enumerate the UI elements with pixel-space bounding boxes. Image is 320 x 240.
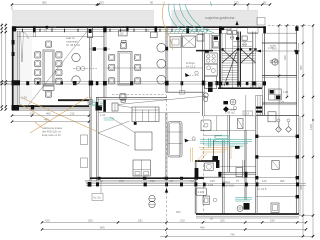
ceiling edge line xyxy=(17,36,104,38)
horizontal dim arrows at y51 xyxy=(256,50,261,53)
orange annotation text xyxy=(42,126,62,137)
wall tick xyxy=(165,47,168,51)
boiler room walls xyxy=(194,161,196,214)
niche wall xyxy=(224,34,226,51)
plumbing black xyxy=(212,156,218,160)
washer fixtures xyxy=(236,168,243,177)
svg-text:210: 210 xyxy=(180,218,185,222)
top dim ticks xyxy=(11,3,271,5)
svg-text:2.16: 2.16 xyxy=(198,190,204,194)
south wall chunks xyxy=(98,177,198,180)
black dot on top wall xyxy=(45,26,48,29)
lower cabinet xyxy=(205,76,217,89)
counter west block xyxy=(170,37,181,47)
entry partition xyxy=(32,27,34,37)
tile hatch entry strip xyxy=(21,32,31,104)
small box xyxy=(112,103,118,111)
shaft box xyxy=(256,96,263,116)
kitchen east wall xyxy=(202,33,204,116)
svg-text:natkrivena terasa: natkrivena terasa xyxy=(42,126,62,130)
landing box xyxy=(242,36,247,40)
service lines east of boiler room xyxy=(218,160,256,178)
svg-text:90: 90 xyxy=(150,1,154,5)
orange pipe bundle xyxy=(191,148,232,163)
svg-text:+3.94: +3.94 xyxy=(49,25,56,29)
svg-text:95: 95 xyxy=(263,1,267,5)
svg-text:1145: 1145 xyxy=(309,124,313,130)
svg-text:250: 250 xyxy=(88,218,93,222)
svg-text:125: 125 xyxy=(234,1,239,5)
hatch box xyxy=(88,99,92,104)
round tables east xyxy=(157,43,166,52)
white revision gap in band xyxy=(154,10,172,27)
middle room south wall xyxy=(96,97,167,99)
twin circle symbol xyxy=(76,66,80,70)
chair head north xyxy=(120,43,126,49)
svg-text:585: 585 xyxy=(299,65,303,70)
right wing outline xyxy=(262,42,297,44)
wc wall below kitchen xyxy=(196,50,213,52)
svg-text:226: 226 xyxy=(220,218,225,222)
south wall of big room xyxy=(12,105,89,107)
svg-text:305: 305 xyxy=(280,179,285,183)
pier column at grid B xyxy=(88,28,93,38)
axis tick squares along y84 xyxy=(12,80,267,85)
rotated dim texts xyxy=(283,55,313,190)
entry door arc xyxy=(21,32,28,39)
wardrobe xyxy=(168,122,182,158)
orange revision curve xyxy=(162,2,173,51)
lower wing south wall xyxy=(90,177,204,179)
svg-text:415: 415 xyxy=(45,218,50,222)
svg-text:A= 12.5: A= 12.5 xyxy=(257,187,267,191)
entrance diamond xyxy=(223,106,229,112)
window mullions xyxy=(23,29,208,33)
drain circle xyxy=(230,99,236,105)
horizontal axis lines across plan xyxy=(2,82,266,85)
kitchen counter front xyxy=(167,33,231,35)
svg-text:440: 440 xyxy=(200,225,205,229)
wall middle room / kitchen hall xyxy=(165,27,167,93)
bathroom wing east wall xyxy=(222,140,224,214)
dim ticks mid-wall y49 xyxy=(89,48,110,50)
hall dim vertical xyxy=(181,34,183,92)
bench wall in big room xyxy=(58,99,89,101)
box with X xyxy=(238,119,244,129)
wall piers on north facade xyxy=(12,26,266,33)
svg-text:745: 745 xyxy=(230,232,235,236)
hall south wall xyxy=(166,91,204,93)
bench south xyxy=(43,86,54,90)
svg-text:150: 150 xyxy=(30,112,35,116)
long dim line y183 xyxy=(86,183,306,185)
chair south xyxy=(120,94,126,100)
label box xyxy=(243,111,252,116)
svg-text:S= 48.5 m2: S= 48.5 m2 xyxy=(66,43,80,47)
svg-text:665: 665 xyxy=(100,225,105,229)
box on hall wall xyxy=(180,91,185,94)
east wall of main block xyxy=(264,27,266,116)
svg-text:1.85 m2: 1.85 m2 xyxy=(225,111,235,115)
west facade planters xyxy=(81,135,88,145)
svg-text:95: 95 xyxy=(210,217,214,221)
black cabinets xyxy=(96,102,99,108)
bottom dim chains xyxy=(42,222,313,236)
chimney block xyxy=(257,18,265,26)
middle zone walls xyxy=(228,115,230,172)
left dimension chains xyxy=(0,24,11,111)
svg-text:+0.00: +0.00 xyxy=(20,96,27,100)
chair head north xyxy=(46,41,52,47)
svg-text:1.80: 1.80 xyxy=(283,90,289,94)
small mark below sofa xyxy=(134,122,137,125)
stair up line xyxy=(224,52,237,86)
svg-text:kota poda +0.15: kota poda +0.15 xyxy=(42,133,61,137)
room C box xyxy=(268,112,276,122)
section marker circles xyxy=(149,195,155,201)
bathroom south wall xyxy=(195,160,218,162)
svg-text:5.16: 5.16 xyxy=(244,112,250,116)
room B kitchenette xyxy=(269,89,282,100)
buffet box 2 xyxy=(151,32,158,38)
svg-text:165: 165 xyxy=(210,179,215,183)
svg-text:kuhinja: kuhinja xyxy=(186,61,195,65)
svg-text:250: 250 xyxy=(119,179,124,183)
svg-text:120: 120 xyxy=(120,33,125,36)
bed xyxy=(133,160,150,176)
svg-text:302: 302 xyxy=(176,210,181,214)
buffet box north xyxy=(119,31,128,36)
south wall lower middle xyxy=(196,213,299,215)
west wall grey fill xyxy=(14,32,20,106)
dim under big room xyxy=(12,116,89,122)
box top xyxy=(197,35,204,42)
arrow to wardrobe xyxy=(185,139,189,143)
counter with X xyxy=(183,36,196,47)
hob with burners xyxy=(205,53,218,64)
neighbour building grey band xyxy=(12,11,258,27)
stair treads left flight xyxy=(222,49,238,85)
landing boxes top xyxy=(221,27,224,30)
svg-text:susjedna građevina: susjedna građevina xyxy=(205,16,235,20)
svg-text:1.20: 1.20 xyxy=(100,113,106,117)
svg-text:490: 490 xyxy=(44,118,49,122)
leader line across hall xyxy=(118,96,206,105)
stair cut X diagonals xyxy=(222,49,256,63)
teal insulation hatch in wall xyxy=(170,29,209,33)
svg-text:325: 325 xyxy=(99,1,104,5)
axis arrow mid xyxy=(165,188,168,193)
south wall grey fill xyxy=(12,107,89,109)
dim line across middle room xyxy=(106,67,203,69)
bath middle wall xyxy=(204,115,255,117)
svg-text:7.25: 7.25 xyxy=(279,100,285,104)
west wall pier xyxy=(12,40,15,45)
hall text arrow xyxy=(185,73,190,77)
svg-text:460: 460 xyxy=(46,112,51,116)
svg-text:240: 240 xyxy=(283,55,287,60)
svg-text:420: 420 xyxy=(299,185,303,190)
svg-text:181: 181 xyxy=(138,218,143,222)
teal lines lower xyxy=(235,197,252,201)
svg-text:120: 120 xyxy=(262,179,267,183)
sink unit xyxy=(205,64,218,76)
axis dashed verticals xyxy=(166,95,168,238)
wall junction black xyxy=(195,168,199,178)
shower tray xyxy=(201,120,211,131)
small circles pair xyxy=(270,60,273,63)
interior wall big room / middle room xyxy=(103,27,105,98)
south wall tick blocks xyxy=(12,105,103,111)
svg-text:P1: P1 xyxy=(44,28,48,32)
chairs east column xyxy=(56,52,62,58)
dim dots on stair line xyxy=(221,48,256,50)
svg-text:sala za: sala za xyxy=(66,36,75,40)
top dimension line xyxy=(12,5,270,11)
svg-text:ručavanje: ručavanje xyxy=(66,40,78,44)
stair top lines xyxy=(233,41,252,43)
diagonal of big room xyxy=(26,30,88,108)
svg-text:15x17.6/28: 15x17.6/28 xyxy=(250,85,264,89)
strip room boxes xyxy=(272,161,279,170)
svg-text:190: 190 xyxy=(270,218,275,222)
rug rect xyxy=(135,132,152,150)
corner box top right xyxy=(248,28,259,34)
svg-text:905: 905 xyxy=(42,1,47,5)
lower wing top wall xyxy=(98,112,200,114)
north facade wall xyxy=(12,26,266,28)
stairwell west wall xyxy=(219,27,221,89)
pump circle xyxy=(205,163,214,170)
svg-text:S= 12.2: S= 12.2 xyxy=(186,64,196,68)
fridge unit xyxy=(212,35,219,48)
landing circle xyxy=(243,43,247,47)
west exterior wall xyxy=(12,27,14,108)
landing dot xyxy=(236,37,239,40)
long table xyxy=(43,50,54,85)
svg-text:215: 215 xyxy=(70,112,75,116)
svg-text:P2: P2 xyxy=(146,28,150,32)
teal fixture xyxy=(91,101,114,120)
chairs west column xyxy=(109,54,115,60)
stair treads right flight xyxy=(241,49,256,63)
long table xyxy=(118,52,132,86)
north facade window lines xyxy=(12,29,231,31)
wc divider wall xyxy=(209,34,211,51)
west wall lower wing xyxy=(89,97,91,181)
stair east wall xyxy=(252,32,254,89)
hanging label box xyxy=(100,182,102,193)
chairs west column xyxy=(35,52,41,58)
svg-text:110: 110 xyxy=(190,179,195,183)
svg-text:355: 355 xyxy=(272,47,277,51)
chairs east column xyxy=(135,54,141,60)
radiator diamonds xyxy=(276,127,282,133)
black pier xyxy=(103,100,106,112)
chair south xyxy=(45,91,51,97)
svg-text:290: 290 xyxy=(150,179,155,183)
sofa xyxy=(132,107,159,122)
label box right xyxy=(196,188,206,195)
teal pipe bundle xyxy=(200,136,252,148)
leader arrow xyxy=(98,121,130,133)
wc toilet xyxy=(203,93,208,98)
stair south wall xyxy=(218,87,262,89)
stair central spine wall xyxy=(237,32,239,88)
black bits top xyxy=(223,101,228,104)
svg-text:dim 450x120 cm: dim 450x120 cm xyxy=(42,129,61,133)
round tables east xyxy=(72,53,80,61)
svg-text:UL-2a: UL-2a xyxy=(93,195,101,199)
room A circle symbol xyxy=(272,59,278,65)
